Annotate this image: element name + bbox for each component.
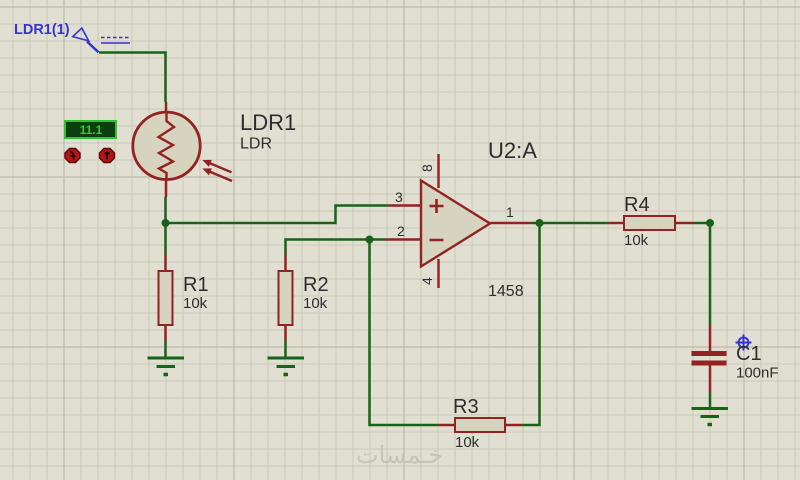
svg-text:LDR1: LDR1 [240,110,296,135]
svg-text:100nF: 100nF [736,365,779,382]
svg-text:R1: R1 [183,274,209,296]
svg-text:1458: 1458 [488,283,524,300]
wire: node D down to C1 [709,223,712,325]
voltage probe LDR1(1) [73,28,130,52]
origin marker (blue crosshair) [736,335,752,351]
svg-text:C1: C1 [736,343,762,365]
svg-text:U2:A: U2:A [488,138,537,163]
svg-text:2: 2 [397,223,405,239]
svg-text:11.1: 11.1 [80,123,103,137]
node B junction (feedback tap) [366,236,374,244]
svg-text:4: 4 [419,277,435,285]
wire: R3 right to output node [522,223,540,425]
op-amp U2:A [386,154,531,288]
wire: LDR bottom to node A and down to R1 [164,197,167,254]
wire: R2 top to op-amp pin 2 [286,240,387,255]
button (left, decrease) [65,149,80,163]
svg-text:10k: 10k [183,295,208,312]
svg-text:R3: R3 [453,396,479,418]
ground (below R2) [268,341,305,375]
node A junction [162,219,170,227]
svg-text:8: 8 [419,164,435,172]
wire: feedback loop left/bottom to R3 [370,240,439,426]
display panel reading 11.1 [65,121,116,138]
svg-text:10k: 10k [624,232,649,249]
node C junction (output) [536,219,544,227]
svg-text:خـمسات: خـمسات [356,442,443,469]
wire: R4 to node D [694,222,710,225]
svg-text:1: 1 [506,204,514,220]
svg-text:LDR: LDR [240,136,272,153]
wire: C1 to ground [709,393,712,407]
resistor R2 [279,254,293,341]
button (right, increase) [100,149,115,163]
svg-text:10k: 10k [303,295,328,312]
svg-text:R4: R4 [624,194,650,216]
svg-text:10k: 10k [455,434,480,451]
capacitor C1 [692,325,727,393]
node D junction [706,219,714,227]
resistor R4 [608,216,694,230]
wire: op-amp output to R4 [531,222,608,225]
ground (below C1) [692,409,729,425]
wire: node A to op-amp pin 3 [166,206,389,224]
LDR LDR1 [133,102,232,197]
svg-text:R2: R2 [303,274,329,296]
svg-text:3: 3 [395,189,403,205]
resistor R1 [159,254,173,341]
wire: probe tip to LDR top [99,53,166,103]
ground (below R1) [148,341,185,375]
svg-text:LDR1(1): LDR1(1) [14,22,70,38]
resistor R3 [438,418,522,432]
